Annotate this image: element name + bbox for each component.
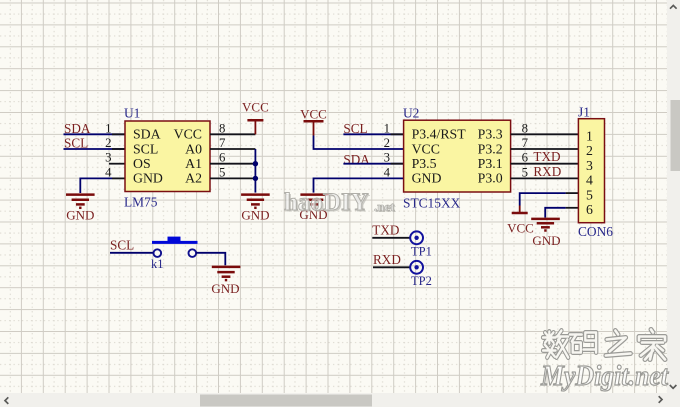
switch k1 actuator [168,237,181,242]
connector J1 body [578,119,604,223]
svg-text:7: 7 [522,136,529,150]
wire U1 pin5 [210,177,255,179]
svg-text:U1: U1 [124,106,140,121]
svg-text:3: 3 [105,151,111,165]
pin 2 stub U1 [112,148,125,150]
svg-text:6: 6 [586,202,593,217]
wire U2 pin8 to J1 pin1 [511,133,579,135]
svg-text:A1: A1 [185,156,202,171]
svg-text:TP1: TP1 [411,245,432,259]
svg-text:TP2: TP2 [411,274,432,288]
wire RXD to TP2 [373,266,410,268]
svg-text:SCL: SCL [110,238,134,253]
mcu U2 body [404,120,511,192]
svg-text:1: 1 [586,129,593,144]
svg-text:STC15XX: STC15XX [403,196,461,211]
svg-text:5: 5 [586,187,593,202]
svg-text:4: 4 [105,165,112,179]
svg-text:GND: GND [532,233,560,248]
svg-text:A0: A0 [185,141,202,156]
svg-text:SDA: SDA [343,152,370,167]
svg-text:GND: GND [211,281,239,296]
wire SCL to k1 [110,252,154,254]
wire U2 pin4 to ground [314,178,404,192]
watermark MyDigit (数码之家 drawn as strokes) [540,330,669,393]
wire U2 pin7 to J1 pin2 [511,148,579,150]
svg-text:1: 1 [105,121,111,135]
op-amp U1 body [125,121,210,192]
wire U2 pin5 to J1 pin4 [511,177,579,179]
svg-text:P3.4/RST: P3.4/RST [412,127,467,142]
svg-text:GND: GND [412,171,442,186]
pin 3 stub U1 [109,163,125,165]
svg-text:5: 5 [522,165,528,179]
svg-text:SDA: SDA [64,121,91,136]
wire U1 pin8 to VCC [210,133,255,135]
watermark haoDIY.net [284,189,396,218]
switch k1 contact left [154,249,162,257]
junction dot A2 [253,176,258,181]
svg-text:3: 3 [384,151,390,165]
svg-text:VCC: VCC [412,141,440,156]
power VCC below J1 pin5 [519,206,521,214]
svg-text:RXD: RXD [533,164,561,179]
svg-text:1: 1 [384,121,390,135]
svg-text:J1: J1 [578,105,590,120]
svg-text:RXD: RXD [373,252,401,267]
wire SCL to U1 pin2 [64,148,126,150]
switch k1 contact right [189,249,197,257]
svg-text:6: 6 [219,151,226,165]
svg-text:8: 8 [522,121,528,135]
wire SDA to U1 pin1 [64,133,126,135]
svg-text:VCC: VCC [242,100,269,115]
svg-text:A2: A2 [185,171,202,186]
power VCC above U1 [254,120,256,134]
svg-text:U2: U2 [403,106,419,121]
svg-text:2: 2 [384,136,390,150]
ground GND under U1 pin4 [66,195,95,208]
wire vertical A0-A1-A2 to ground [254,149,256,193]
svg-text:P3.1: P3.1 [478,156,503,171]
wire TXD to TP1 [372,237,410,239]
pin 1 stub U1 [112,133,125,135]
scrollbar horizontal [0,393,680,407]
svg-text:2: 2 [586,143,593,158]
ground GND below J1 pin6 [531,219,560,231]
svg-text:4: 4 [586,173,593,188]
svg-text:P3.2: P3.2 [478,141,503,156]
svg-text:GND: GND [241,208,269,223]
pin stub J1 pin6 [566,207,579,209]
wire U1 pin4 to ground [80,178,112,193]
ground GND right of U1 [241,195,270,208]
svg-text:4: 4 [384,165,391,179]
pin stub J1 pin5 [566,192,579,194]
test point TP1 [410,231,423,244]
svg-text:P3.3: P3.3 [478,127,503,142]
svg-text:GND: GND [66,208,94,223]
wire SCL to U2 pin1 [343,133,403,135]
svg-text:k1: k1 [151,257,164,271]
scrollbar vertical [667,0,680,393]
svg-text:6: 6 [522,151,529,165]
wire VCC to U2 pin2 [314,136,404,150]
svg-text:VCC: VCC [300,107,327,122]
svg-text:5: 5 [219,165,225,179]
svg-text:MyDigit.net: MyDigit.net [540,361,669,392]
svg-text:haoDIY: haoDIY [284,189,369,216]
svg-text:TXD: TXD [533,149,560,164]
wire U1 pin6 [210,163,255,165]
svg-text:CON6: CON6 [578,224,613,239]
svg-text:SCL: SCL [133,141,158,156]
svg-text:VCC: VCC [507,221,534,236]
svg-text:.net: .net [374,199,395,214]
wire k1 to ground [196,253,225,265]
svg-text:GND: GND [133,171,163,186]
svg-text:SCL: SCL [64,136,88,151]
svg-text:TXD: TXD [372,223,399,238]
svg-text:3: 3 [586,158,593,173]
svg-text:LM75: LM75 [124,195,158,210]
switch k1 bar [152,241,198,244]
wire J1 pin6 to ground [545,208,565,218]
wire J1 pin5 to VCC [520,193,566,205]
wire SDA to U2 pin3 [343,163,403,165]
svg-text:SDA: SDA [133,127,161,142]
svg-text:8: 8 [219,121,225,135]
svg-text:OS: OS [133,156,151,171]
svg-text:P3.0: P3.0 [478,171,503,186]
ground GND under U2 [300,195,328,208]
ground GND under k1 [212,267,241,280]
svg-text:2: 2 [105,136,111,150]
svg-text:P3.5: P3.5 [412,156,437,171]
test point TP2 [410,261,423,274]
junction dot A1 [253,161,258,166]
svg-text:7: 7 [219,136,226,150]
wire U2 pin6 to J1 pin3 [511,163,579,165]
svg-text:VCC: VCC [174,127,202,142]
wire U1 pin7 [210,148,255,150]
pin 4 stub U1 [112,177,125,179]
